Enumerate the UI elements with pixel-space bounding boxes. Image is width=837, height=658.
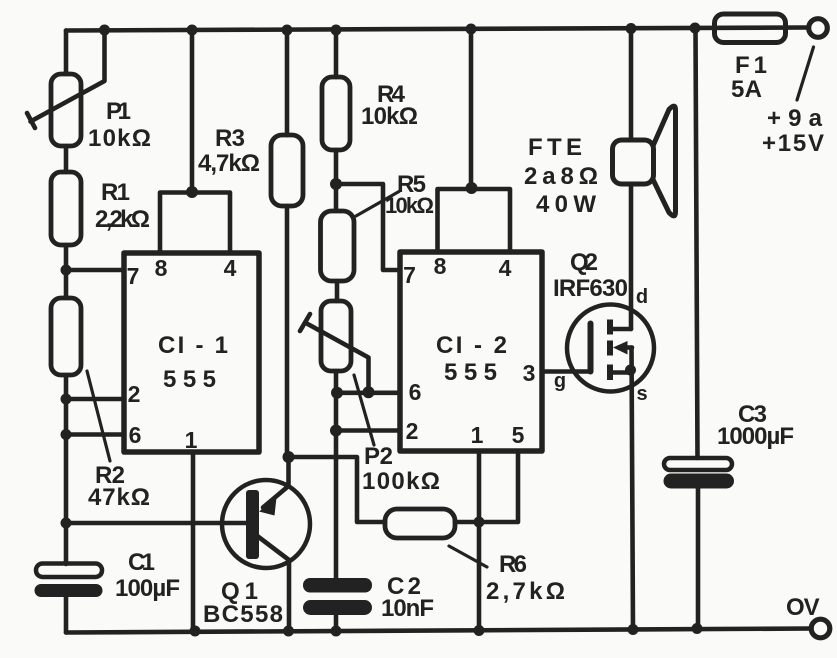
svg-text:1: 1 [471,422,484,448]
svg-text:10kΩ: 10kΩ [385,193,434,218]
svg-text:g: g [554,370,566,392]
svg-text:8: 8 [155,255,168,281]
svg-text:2: 2 [406,418,419,444]
svg-text:6: 6 [409,379,422,405]
svg-text:40W: 40W [536,191,596,218]
svg-text:5A: 5A [731,76,762,103]
svg-text:R3: R3 [215,125,245,152]
svg-text:Q2: Q2 [570,249,598,276]
svg-text:F T E: F T E [528,134,582,161]
svg-text:2,2kΩ: 2,2kΩ [95,206,150,233]
svg-text:CI - 1: CI - 1 [158,332,228,359]
svg-text:100kΩ: 100kΩ [362,468,440,495]
svg-text:R1: R1 [101,179,130,206]
svg-text:BC558: BC558 [203,601,283,628]
svg-text:s: s [636,383,647,405]
svg-text:C1: C1 [128,549,155,576]
svg-text:10kΩ: 10kΩ [88,125,151,152]
svg-text:R6: R6 [499,551,527,578]
svg-text:5: 5 [512,422,525,448]
svg-text:4: 4 [224,255,237,281]
svg-text:P2: P2 [364,443,393,470]
svg-text:47kΩ: 47kΩ [88,484,150,511]
svg-text:+9a: +9a [767,105,823,132]
svg-text:7: 7 [403,262,416,288]
svg-text:5 5 5: 5 5 5 [163,366,216,393]
svg-text:2: 2 [128,381,141,407]
svg-text:+15V: +15V [762,130,824,157]
svg-text:1000µF: 1000µF [717,423,794,450]
svg-text:1: 1 [185,427,198,453]
svg-text:F 1: F 1 [735,52,767,79]
svg-text:3: 3 [523,360,536,386]
svg-text:7: 7 [127,263,140,289]
svg-text:2a8Ω: 2a8Ω [524,163,598,190]
svg-text:5 5 5: 5 5 5 [444,359,497,386]
svg-text:6: 6 [129,422,142,448]
svg-text:8: 8 [434,253,447,279]
svg-text:d: d [636,286,648,308]
svg-text:4: 4 [499,255,512,281]
svg-text:CI - 2: CI - 2 [436,332,507,359]
svg-text:IRF630: IRF630 [553,275,628,302]
svg-text:10kΩ: 10kΩ [361,103,418,130]
svg-text:10nF: 10nF [381,595,434,622]
svg-text:OV: OV [786,594,820,621]
svg-text:100µF: 100µF [115,575,180,602]
svg-text:P1: P1 [106,98,131,125]
svg-text:4,7kΩ: 4,7kΩ [198,150,260,177]
svg-text:2,7kΩ: 2,7kΩ [486,578,565,605]
